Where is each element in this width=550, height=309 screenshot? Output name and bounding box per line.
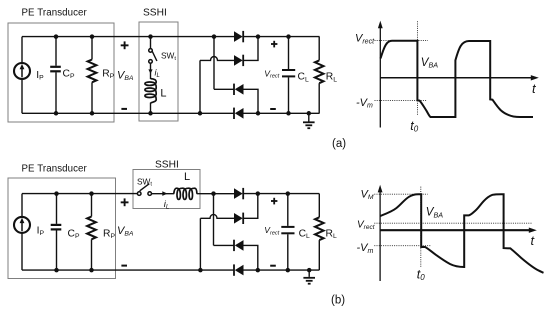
svg-text:SWt: SWt bbox=[137, 176, 152, 187]
junction dot (b) CL bottom bbox=[286, 268, 291, 273]
dashed level -Vm (b) bbox=[374, 245, 431, 247]
wire: RL bottom stub (a) bbox=[318, 83, 320, 113]
wire: inductor bottom stub (a) bbox=[150, 103, 152, 114]
svg-text:SWt: SWt bbox=[161, 51, 176, 62]
junction dot (a) bottom CP bbox=[54, 111, 59, 116]
label + output (b) bbox=[271, 200, 277, 202]
svg-text:CL: CL bbox=[299, 229, 310, 241]
current source IP (b) bbox=[14, 217, 30, 233]
axis: horizontal t axis (b) bbox=[380, 229, 532, 231]
wire: CL top stub (a) bbox=[288, 37, 290, 69]
switch SWt (b) bbox=[137, 192, 141, 196]
wire: RL top stub (b) bbox=[318, 194, 320, 218]
svg-text:PE Transducer: PE Transducer bbox=[22, 7, 88, 18]
capacitor CL (a) bbox=[282, 69, 295, 71]
wire: node A vertical into bridge (a) bbox=[213, 37, 215, 90]
junction dot (a) SSHI bottom bbox=[148, 111, 153, 116]
svg-text:t0: t0 bbox=[417, 268, 425, 283]
dotted t0 vertical (a) bbox=[417, 21, 419, 116]
wire: RL bottom stub (b) bbox=[318, 240, 320, 270]
ground symbol (b) bbox=[308, 270, 310, 277]
svg-text:L: L bbox=[160, 88, 166, 100]
label - output (a) bbox=[270, 108, 276, 110]
diode D2 (b) bbox=[234, 213, 243, 224]
wire: row3 from node A to diode D3 (b) bbox=[214, 244, 235, 246]
svg-text:-Vm: -Vm bbox=[356, 97, 373, 110]
junction dot (a) node B bottom bbox=[198, 111, 203, 116]
dotted t0 vertical (b) bbox=[420, 187, 422, 268]
ground symbol (a) bbox=[308, 113, 310, 122]
svg-text:VBA: VBA bbox=[117, 69, 134, 82]
junction dot (b) ground bbox=[307, 268, 312, 273]
wire: RP top stub (a) bbox=[91, 37, 93, 60]
svg-text:t0: t0 bbox=[410, 119, 418, 134]
diode D3 (b) bbox=[235, 240, 244, 251]
wire: CL top stub (b) bbox=[287, 194, 289, 226]
junction dot (a) CL top bbox=[286, 34, 291, 39]
svg-text:Vrect: Vrect bbox=[264, 68, 279, 79]
wire: row2 from node B with hop over node A wire (a) bbox=[200, 57, 235, 61]
label - output (b) bbox=[270, 265, 276, 267]
diode D2 (a) bbox=[234, 55, 243, 66]
svg-text:VBA: VBA bbox=[426, 207, 443, 220]
label + of VBA (b) bbox=[121, 201, 129, 203]
svg-text:Vrect: Vrect bbox=[357, 219, 376, 231]
junction dot (a) ground bbox=[307, 111, 312, 116]
wire: current source bottom stub (a) bbox=[21, 79, 23, 113]
wire: - node bottom rail (a) bbox=[243, 112, 320, 114]
SSHI enclosure box (a) bbox=[139, 22, 178, 121]
wire: switch to inductor with iL arrow (b) bbox=[152, 193, 175, 195]
waveform VBA curve (a) bbox=[381, 41, 534, 117]
wire: CL bottom stub (b) bbox=[287, 234, 289, 270]
label - of VBA (a) bbox=[121, 108, 127, 110]
junction dot (a) - node bbox=[256, 111, 261, 116]
wire: - node bottom rail (b) bbox=[243, 269, 319, 271]
wire: node B vertical (b) bbox=[199, 218, 201, 270]
junction dot (b) bottom CP bbox=[54, 268, 59, 273]
wire: CL bottom stub (a) bbox=[288, 77, 290, 113]
dashed level VM (b) bbox=[374, 193, 427, 195]
PE transducer enclosure box (a) bbox=[8, 23, 114, 122]
wire: inductor to bridge (b) bbox=[197, 193, 235, 195]
capacitor CP (b) bbox=[51, 224, 62, 226]
junction dot (b) - node bbox=[256, 268, 261, 273]
svg-text:RP: RP bbox=[103, 228, 115, 240]
wire: CP top stub (b) bbox=[56, 194, 58, 224]
wire: row2 diode D2 to + node riser (a) bbox=[243, 37, 258, 61]
svg-text:RL: RL bbox=[326, 228, 337, 240]
wire: CP bottom stub (a) bbox=[55, 72, 57, 113]
wire: RP top stub (b) bbox=[91, 194, 93, 217]
inductor L vertical (a) bbox=[145, 79, 156, 103]
wire: SSHI branch top stub (a) bbox=[150, 37, 152, 49]
axis: vertical V axis (b) bbox=[379, 189, 381, 281]
svg-text:CL: CL bbox=[298, 72, 309, 84]
svg-text:-Vm: -Vm bbox=[357, 242, 374, 255]
wire: RP bottom stub (a) bbox=[91, 82, 93, 113]
wire: node A top rail left of switch (b) bbox=[22, 193, 137, 195]
waveform VBA curve (b) bbox=[380, 194, 543, 273]
wire: current source top stub (a) bbox=[21, 37, 23, 64]
junction dot (b) top RP bbox=[89, 191, 94, 196]
svg-text:SSHI: SSHI bbox=[155, 159, 179, 170]
label - of VBA (b) bbox=[121, 265, 127, 267]
svg-text:Vrect: Vrect bbox=[264, 225, 279, 236]
capacitor CP (a) bbox=[50, 66, 61, 68]
resistor RL (a) bbox=[315, 60, 324, 83]
SSHI enclosure box (b) bbox=[133, 170, 200, 209]
svg-text:iL: iL bbox=[155, 68, 160, 80]
svg-text:Vrect: Vrect bbox=[355, 33, 375, 46]
label + output (a) bbox=[271, 43, 277, 45]
axis: vertical V axis (a) bbox=[379, 25, 381, 128]
svg-text:SSHI: SSHI bbox=[143, 8, 167, 19]
wire: + node top rail (a) bbox=[243, 36, 320, 38]
diode D4 (a) bbox=[235, 108, 244, 119]
junction dot (a) top RP bbox=[90, 34, 95, 39]
diode D3 (a) bbox=[235, 84, 244, 95]
svg-text:PE Transducer: PE Transducer bbox=[22, 163, 88, 174]
wire: CP top stub (a) bbox=[55, 37, 57, 66]
wire: RL branch (a) bbox=[318, 37, 320, 61]
junction dot (b) node B bottom bbox=[198, 268, 203, 273]
svg-text:iL: iL bbox=[164, 199, 170, 211]
junction dot (a) SSHI top bbox=[148, 34, 153, 39]
dashed level Vrect full width (b) bbox=[374, 222, 531, 224]
junction dot (a) bottom RP bbox=[90, 111, 95, 116]
junction dot (a) + node bbox=[256, 34, 261, 39]
svg-text:RL: RL bbox=[326, 72, 337, 84]
svg-text:VM: VM bbox=[361, 188, 374, 201]
wire: current source top stub (b) bbox=[21, 194, 23, 217]
wire: row3 diode D3 to - node dropper (a) bbox=[243, 89, 258, 113]
wire: current source bottom stub (b) bbox=[21, 233, 23, 270]
resistor RP (a) bbox=[88, 60, 97, 83]
svg-text:IP: IP bbox=[36, 70, 44, 82]
current source IP (a) bbox=[14, 63, 30, 79]
wire: node B bottom rail (a) bbox=[22, 112, 235, 114]
junction dot (b) node A at bridge bbox=[211, 191, 216, 196]
wire: node A top rail (a) bbox=[22, 36, 235, 38]
svg-text:t: t bbox=[532, 81, 537, 96]
junction dot (a) CL bottom bbox=[286, 111, 291, 116]
svg-text:(a): (a) bbox=[332, 138, 346, 150]
wire: + node top rail (b) bbox=[243, 193, 319, 195]
switch SWt (a) bbox=[149, 49, 153, 53]
svg-text:CP: CP bbox=[68, 228, 80, 240]
PE transducer enclosure box (b) bbox=[8, 178, 116, 279]
capacitor CL (b) bbox=[281, 226, 294, 228]
svg-text:IP: IP bbox=[37, 225, 45, 237]
wire: RP bottom stub (b) bbox=[91, 239, 93, 270]
label + of VBA (a) bbox=[121, 44, 129, 46]
wire: row2 diode D2 to + node riser (b) bbox=[243, 194, 258, 219]
junction dot (a) node A at bridge bbox=[212, 34, 217, 39]
dashed level Vrect (a) bbox=[375, 40, 428, 42]
junction dot (b) CL top bbox=[286, 191, 291, 196]
svg-text:t: t bbox=[531, 233, 536, 248]
junction dot (b) top CP bbox=[54, 191, 59, 196]
wire: node B vertical (a) bbox=[199, 60, 201, 113]
junction dot (a) top CP bbox=[54, 34, 59, 39]
wire: node A vertical into bridge (b) bbox=[213, 194, 215, 246]
svg-text:VBA: VBA bbox=[421, 57, 438, 70]
diode D4 (b) bbox=[235, 265, 244, 276]
inductor L horizontal (b) bbox=[174, 188, 197, 199]
junction dot (b) bottom RP bbox=[89, 268, 94, 273]
diode D1 (a) bbox=[234, 31, 243, 42]
svg-text:(b): (b) bbox=[331, 295, 345, 307]
dashed level -Vm (a) bbox=[375, 99, 427, 101]
resistor RP (b) bbox=[87, 217, 96, 240]
svg-text:L: L bbox=[184, 171, 190, 183]
axis: horizontal t axis (a) bbox=[380, 77, 534, 79]
svg-text:RP: RP bbox=[102, 69, 114, 81]
wire: CP bottom stub (b) bbox=[56, 231, 58, 271]
svg-text:CP: CP bbox=[63, 69, 75, 81]
junction dot (b) + node bbox=[256, 191, 261, 196]
wire: node B bottom rail (b) bbox=[22, 269, 235, 271]
wire: row3 diode D3 to - node dropper (b) bbox=[243, 245, 258, 270]
svg-text:VBA: VBA bbox=[117, 225, 134, 238]
wire: row2 from node B with hop over node A wire (b) bbox=[200, 214, 234, 218]
resistor RL (b) bbox=[315, 217, 324, 240]
wire: row3 from node A to diode D3 (a) bbox=[214, 88, 235, 90]
wire: switch to inductor with iL arrow (a) bbox=[150, 63, 152, 79]
diode D1 (b) bbox=[234, 188, 243, 199]
